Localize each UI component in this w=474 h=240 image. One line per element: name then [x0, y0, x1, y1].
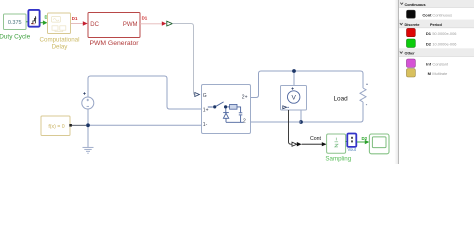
svg-text:Sampling: Sampling — [325, 155, 351, 162]
svg-text:DC: DC — [90, 22, 99, 28]
svg-text:D1: D1 — [426, 31, 432, 36]
svg-text:D1: D1 — [72, 16, 78, 21]
svg-text:2: 2 — [243, 119, 246, 125]
svg-text:Inf: Inf — [426, 61, 432, 66]
svg-text:Cont: Cont — [422, 12, 432, 17]
svg-text:V: V — [291, 95, 296, 102]
svg-text:Vout: Vout — [348, 147, 357, 152]
svg-text:Continuous: Continuous — [432, 12, 452, 17]
svg-text:10.0000e-006: 10.0000e-006 — [432, 41, 456, 46]
svg-text:0.375: 0.375 — [8, 20, 22, 26]
svg-text:PWM: PWM — [123, 22, 138, 28]
svg-text:Duty Cycle: Duty Cycle — [0, 34, 31, 41]
svg-text:Continuous: Continuous — [405, 3, 426, 7]
svg-text:Cont: Cont — [310, 136, 322, 142]
svg-text:D2: D2 — [426, 41, 432, 46]
svg-text:D1: D1 — [142, 16, 148, 21]
svg-text:Delay: Delay — [52, 43, 69, 50]
svg-text:G: G — [203, 93, 207, 99]
svg-text:1-: 1- — [203, 122, 208, 128]
svg-text:Load: Load — [334, 96, 349, 103]
svg-text:Period: Period — [430, 23, 442, 27]
svg-text:1+: 1+ — [203, 108, 209, 114]
svg-text:f(x) = 0: f(x) = 0 — [48, 124, 64, 130]
svg-text:D2: D2 — [362, 136, 368, 141]
svg-text:PWM Generator: PWM Generator — [89, 40, 139, 47]
svg-text:2+: 2+ — [242, 95, 248, 101]
svg-text:Multirate: Multirate — [432, 71, 447, 76]
svg-text:Constant: Constant — [432, 61, 448, 66]
svg-text:Other: Other — [405, 52, 416, 56]
svg-text:50.0000e-006: 50.0000e-006 — [432, 31, 456, 36]
svg-text:Discrete: Discrete — [405, 23, 420, 27]
